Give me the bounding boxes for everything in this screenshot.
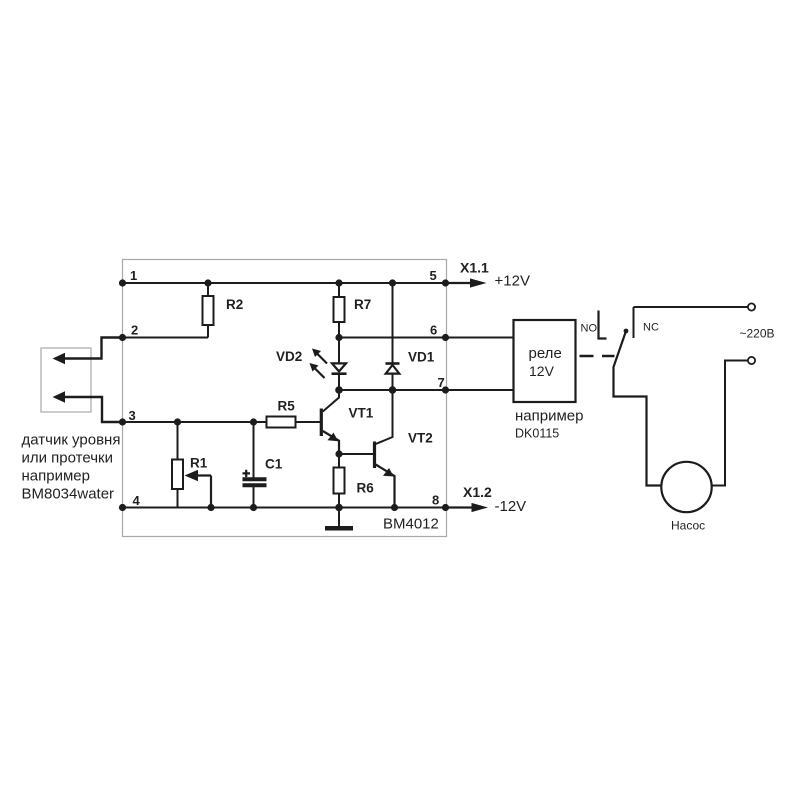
transistor VT1 base bar	[320, 409, 323, 437]
diode VD1 lower wire	[392, 374, 394, 390]
svg-text:R2: R2	[226, 297, 243, 312]
potentiometer R1 wiper arrowhead	[185, 470, 199, 481]
svg-text:или протечки: или протечки	[22, 450, 113, 467]
svg-text:NC: NC	[643, 322, 659, 334]
svg-text:например: например	[22, 468, 90, 485]
wire pin3 rail	[123, 421, 267, 423]
junction VD1 bottom	[389, 386, 397, 394]
diode VD1 anode wire from top rail	[392, 283, 394, 363]
svg-text:3: 3	[129, 408, 136, 423]
junction C1 bottom	[250, 504, 257, 511]
sensor upper arrowhead	[53, 353, 66, 364]
svg-text:DK0115: DK0115	[515, 427, 559, 441]
junction node 5	[442, 279, 449, 286]
resistor R6 body	[334, 468, 345, 494]
svg-text:R5: R5	[278, 399, 296, 414]
junction VT1 emitter	[335, 450, 342, 457]
svg-text:2: 2	[131, 323, 138, 338]
potentiometer R1 leads	[177, 422, 179, 508]
ground lead	[338, 508, 340, 527]
capacitor C1 leads	[253, 422, 255, 508]
capacitor C1 bottom plate	[243, 483, 267, 487]
svg-text:NO: NO	[581, 323, 598, 335]
junction node 8	[442, 504, 449, 511]
wire VT1 emitter to R6	[338, 454, 340, 468]
junction node 1	[119, 279, 126, 286]
junction R1 wiper bottom	[207, 504, 214, 511]
capacitor C1 plus sign	[243, 470, 251, 477]
capacitor C1 top plate	[243, 477, 267, 481]
transistor VT2 emitter arrowhead	[383, 468, 394, 477]
svg-text:~220В: ~220В	[740, 327, 775, 341]
junction R1 top	[174, 418, 181, 425]
wire pin4 to pin8 rail	[123, 507, 446, 509]
junction node 4	[119, 504, 126, 511]
junction VD1 top	[389, 279, 396, 286]
LED VD2 emission arrow 1	[317, 353, 328, 364]
svg-text:датчик уровня: датчик уровня	[22, 431, 121, 448]
ground bar	[325, 526, 353, 531]
wire NC to top terminal	[634, 306, 748, 308]
svg-text:C1: C1	[265, 457, 283, 472]
svg-text:BM4012: BM4012	[383, 516, 439, 533]
IC module outline box BM4012	[123, 260, 447, 537]
junction ground node	[335, 504, 343, 512]
wire pin2 rail	[123, 337, 209, 339]
svg-text:R1: R1	[190, 456, 208, 471]
svg-text:VD1: VD1	[408, 350, 435, 365]
junction R7 top	[335, 279, 342, 286]
svg-text:-12V: -12V	[495, 498, 527, 515]
svg-text:+12V: +12V	[495, 273, 530, 290]
terminal ~220V bottom	[748, 357, 755, 364]
svg-text:BM8034water: BM8034water	[22, 486, 115, 503]
resistor R2 leads	[207, 283, 209, 338]
diode VD1 triangle	[386, 365, 400, 374]
wire sensor lower lead	[62, 397, 123, 422]
svg-text:8: 8	[432, 493, 439, 508]
relay actuation dashed link	[580, 355, 615, 357]
transistor VT2 emitter wire	[376, 465, 395, 508]
svg-text:5: 5	[430, 268, 437, 283]
relay NC contact	[633, 307, 635, 338]
junction node 3	[119, 418, 126, 425]
junction VT2 emitter bottom	[391, 504, 398, 511]
junction node 7	[442, 386, 449, 393]
svg-text:реле: реле	[529, 345, 562, 362]
potentiometer R1 wiper wire	[196, 476, 211, 508]
wire sensor upper lead	[62, 338, 123, 359]
LED VD2 cathode bar	[332, 372, 347, 375]
svg-text:1: 1	[130, 268, 137, 283]
svg-text:например: например	[515, 408, 583, 425]
svg-text:X1.2: X1.2	[463, 484, 492, 500]
svg-text:R6: R6	[357, 481, 375, 496]
terminal ~220V top	[748, 303, 755, 310]
resistor R6 lower lead	[338, 494, 340, 508]
transistor VT1 emitter wire	[323, 431, 339, 454]
junction node 2	[119, 334, 126, 341]
junction R2 top	[204, 279, 211, 286]
sensor lower arrowhead	[53, 391, 66, 402]
diode VD1 cathode bar	[386, 362, 400, 365]
svg-text:R7: R7	[354, 297, 371, 312]
connector X1.2 arrow wire	[446, 506, 474, 508]
relay box	[514, 320, 576, 402]
LED VD2 emission arrow 2	[314, 368, 325, 379]
wire pin7 rail to relay	[339, 389, 514, 391]
transistor VT1 collector wire	[323, 390, 339, 412]
svg-text:6: 6	[430, 323, 437, 338]
potentiometer R1 body	[172, 460, 183, 490]
relay NO contact	[599, 311, 607, 339]
relay armature pivot	[624, 329, 629, 334]
LED VD2 cathode wire	[338, 375, 340, 390]
junction R7 bottom	[335, 334, 342, 341]
connector X1.2 arrowhead	[472, 503, 489, 512]
resistor R7 body	[334, 297, 345, 322]
wire R5 to VT1 base	[296, 421, 321, 423]
resistor R7 leads	[338, 283, 340, 338]
svg-text:VT1: VT1	[349, 406, 374, 421]
LED VD2 triangle	[332, 363, 346, 371]
resistor R2 body	[203, 296, 214, 325]
transistor VT2 base bar	[373, 442, 376, 469]
junction node 6	[442, 334, 449, 341]
connector X1.1 arrow wire	[446, 282, 473, 284]
svg-text:12V: 12V	[529, 363, 555, 379]
resistor R5 body	[267, 417, 296, 428]
svg-text:VD2: VD2	[276, 349, 302, 364]
svg-text:4: 4	[133, 493, 141, 508]
sensor box	[41, 348, 91, 412]
svg-text:X1.1: X1.1	[460, 260, 489, 276]
junction VD2 bottom	[335, 386, 343, 394]
wire rail pin1 to pin5	[123, 282, 446, 284]
pump motor circle	[661, 462, 711, 512]
wire VT1 emitter to VT2 base	[339, 453, 374, 455]
wire bottom terminal to pump	[712, 361, 748, 486]
transistor VT2 collector wire	[376, 390, 393, 444]
relay armature	[614, 331, 662, 486]
junction C1 top	[250, 418, 257, 425]
wire pin6 rail to relay	[339, 337, 514, 339]
connector X1.1 arrowhead	[470, 278, 487, 287]
svg-text:VT2: VT2	[408, 431, 433, 446]
svg-text:7: 7	[438, 375, 445, 390]
svg-text:Насос: Насос	[671, 519, 705, 533]
LED VD2 anode wire	[338, 338, 340, 364]
transistor VT1 emitter arrowhead	[328, 433, 339, 442]
